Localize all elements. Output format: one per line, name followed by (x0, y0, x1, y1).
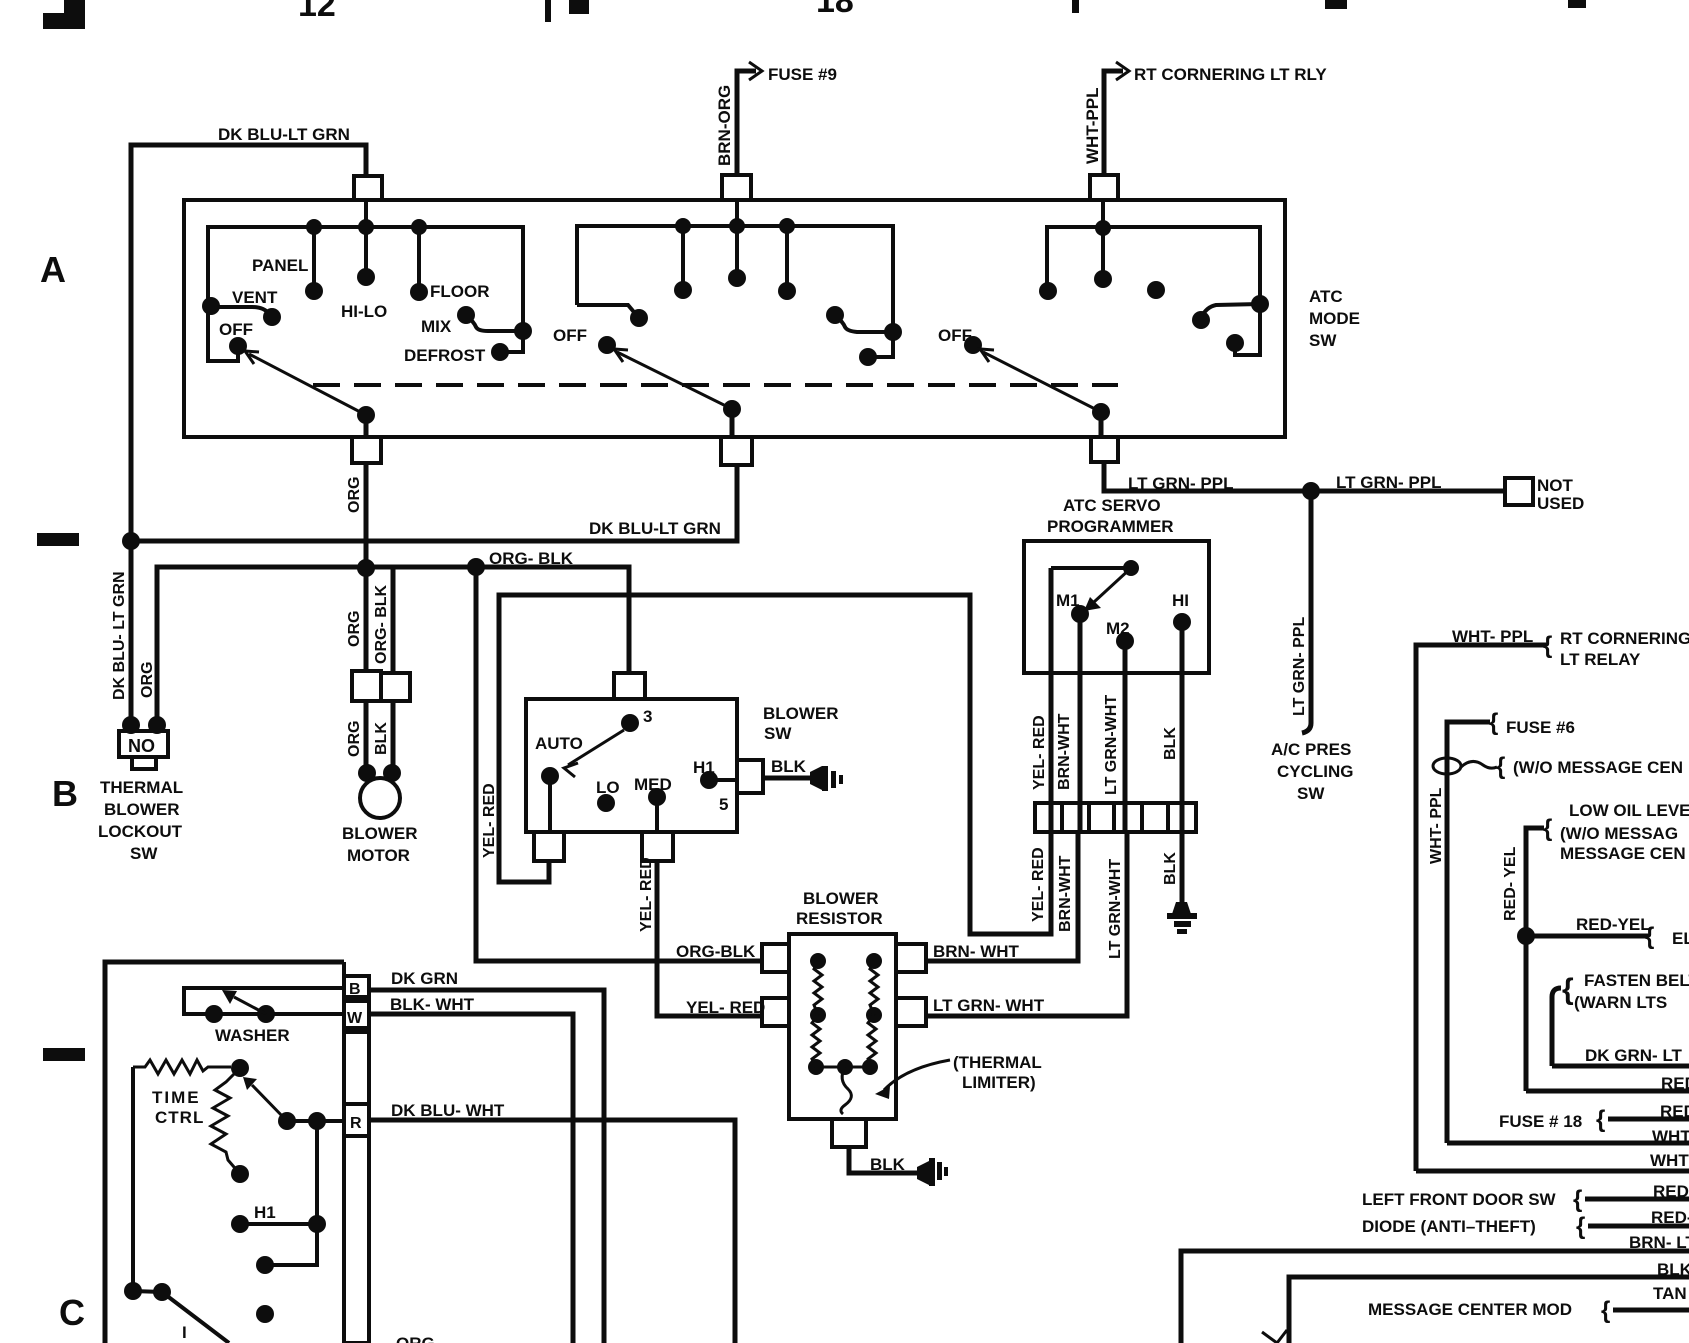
svg-text:DK BLU- LT GRN: DK BLU- LT GRN (111, 571, 128, 700)
svg-text:{: { (1601, 1297, 1610, 1324)
svg-text:ORG- BLK: ORG- BLK (489, 549, 574, 568)
svg-text:BRN-WHT: BRN-WHT (1057, 855, 1074, 932)
svg-text:(W/O MESSAGE CEN: (W/O MESSAGE CEN (1513, 758, 1683, 777)
svg-text:WHT-PPL: WHT-PPL (1083, 88, 1102, 165)
svg-text:H1: H1 (254, 1203, 276, 1222)
svg-text:WHT: WHT (1652, 1127, 1689, 1146)
svg-text:LT GRN-WHT: LT GRN-WHT (1107, 859, 1124, 959)
svg-text:TIME: TIME (152, 1088, 201, 1107)
svg-text:ORG: ORG (139, 662, 156, 698)
svg-text:BLK: BLK (771, 757, 807, 776)
svg-text:LT GRN- PPL: LT GRN- PPL (1336, 473, 1441, 492)
svg-text:THERMAL: THERMAL (100, 778, 183, 797)
svg-text:DK GRN: DK GRN (391, 969, 458, 988)
svg-text:ELE: ELE (1672, 929, 1689, 948)
svg-text:PROGRAMMER: PROGRAMMER (1047, 517, 1174, 536)
svg-text:{: { (1496, 753, 1505, 780)
svg-text:BLOWER: BLOWER (803, 889, 879, 908)
svg-text:ORG: ORG (346, 721, 363, 757)
svg-text:MED: MED (634, 775, 672, 794)
svg-text:ORG: ORG (346, 477, 363, 513)
svg-text:LIMITER): LIMITER) (962, 1073, 1036, 1092)
svg-text:LT GRN- PPL: LT GRN- PPL (1128, 474, 1233, 493)
svg-text:RT CORNERING: RT CORNERING (1560, 629, 1689, 648)
svg-text:MESSAGE CENTER MOD: MESSAGE CENTER MOD (1368, 1300, 1572, 1319)
svg-text:LT GRN- PPL: LT GRN- PPL (1291, 617, 1308, 716)
svg-text:ORG: ORG (346, 611, 363, 647)
svg-text:YEL- RED: YEL- RED (686, 998, 765, 1017)
svg-text:5: 5 (719, 795, 728, 814)
svg-text:A: A (40, 249, 66, 290)
svg-text:NO: NO (128, 736, 155, 756)
svg-text:LOCKOUT: LOCKOUT (98, 822, 183, 841)
svg-text:BLK: BLK (870, 1155, 906, 1174)
svg-text:OFF: OFF (219, 320, 253, 339)
svg-text:ORG-BLK: ORG-BLK (676, 942, 756, 961)
svg-text:{: { (1543, 632, 1552, 659)
svg-text:BRN- WHT: BRN- WHT (933, 942, 1020, 961)
svg-text:MODE: MODE (1309, 309, 1360, 328)
svg-text:ORG: ORG (396, 1334, 435, 1343)
svg-text:FUSE #9: FUSE #9 (768, 65, 837, 84)
svg-text:YEL- RED: YEL- RED (481, 783, 498, 858)
svg-text:RED- YEL: RED- YEL (1502, 846, 1519, 921)
svg-text:LEFT FRONT DOOR SW: LEFT FRONT DOOR SW (1362, 1190, 1557, 1209)
svg-text:FLOOR: FLOOR (430, 282, 490, 301)
svg-text:YEL- RED: YEL- RED (1031, 715, 1048, 790)
svg-text:{: { (1573, 1186, 1582, 1213)
svg-text:B: B (52, 773, 78, 814)
svg-text:{: { (1576, 1213, 1585, 1240)
svg-text:USED: USED (1537, 494, 1584, 513)
svg-text:ATC: ATC (1309, 287, 1343, 306)
svg-text:AUTO: AUTO (535, 734, 583, 753)
svg-text:M2: M2 (1106, 619, 1130, 638)
svg-text:BLOWER: BLOWER (342, 824, 418, 843)
svg-text:YEL- RED: YEL- RED (1030, 847, 1047, 922)
svg-text:H1: H1 (693, 758, 715, 777)
svg-text:BLK: BLK (1162, 852, 1179, 885)
svg-text:HI: HI (1172, 591, 1189, 610)
svg-text:BLOWER: BLOWER (763, 704, 839, 723)
svg-text:PANEL: PANEL (252, 256, 308, 275)
svg-text:SW: SW (130, 844, 158, 863)
svg-text:LT GRN-WHT: LT GRN-WHT (1103, 695, 1120, 795)
svg-text:LO: LO (596, 778, 620, 797)
svg-text:MESSAGE CEN: MESSAGE CEN (1560, 844, 1686, 863)
svg-text:BLK: BLK (373, 722, 390, 755)
svg-text:{: { (1543, 815, 1552, 842)
svg-text:VENT: VENT (232, 288, 278, 307)
svg-text:LT GRN- WHT: LT GRN- WHT (933, 996, 1045, 1015)
svg-text:(WARN LTS: (WARN LTS (1574, 993, 1667, 1012)
svg-text:DEFROST: DEFROST (404, 346, 486, 365)
svg-text:{: { (1562, 973, 1574, 1006)
svg-text:M1: M1 (1056, 591, 1080, 610)
svg-text:3: 3 (643, 707, 652, 726)
svg-text:RED-YEL: RED-YEL (1576, 915, 1651, 934)
svg-text:WHT- PPL: WHT- PPL (1452, 627, 1533, 646)
svg-text:R: R (350, 1115, 362, 1132)
svg-text:HI-LO: HI-LO (341, 302, 387, 321)
svg-text:W: W (347, 1010, 363, 1027)
svg-text:SW: SW (1297, 784, 1325, 803)
svg-text:{: { (1596, 1106, 1605, 1133)
svg-text:RED: RED (1661, 1074, 1689, 1093)
svg-text:NOT: NOT (1537, 476, 1574, 495)
svg-text:SW: SW (764, 724, 792, 743)
svg-text:WASHER: WASHER (215, 1026, 290, 1045)
svg-text:{: { (1489, 709, 1498, 736)
svg-text:DK GRN- LT: DK GRN- LT (1585, 1046, 1683, 1065)
svg-text:YEL- RED: YEL- RED (638, 857, 655, 932)
svg-text:BRN-WHT: BRN-WHT (1056, 713, 1073, 790)
svg-text:B: B (349, 981, 361, 998)
svg-text:(W/O MESSAG: (W/O MESSAG (1560, 824, 1678, 843)
svg-text:ORG- BLK: ORG- BLK (373, 584, 390, 664)
svg-text:18: 18 (816, 0, 854, 20)
svg-text:BLK- WHT: BLK- WHT (390, 995, 475, 1014)
svg-text:DIODE (ANTI–THEFT): DIODE (ANTI–THEFT) (1362, 1217, 1536, 1236)
svg-text:ATC SERVO: ATC SERVO (1063, 496, 1161, 515)
svg-text:BRN-ORG: BRN-ORG (715, 85, 734, 166)
svg-text:(THERMAL: (THERMAL (953, 1053, 1042, 1072)
svg-text:DK BLU- WHT: DK BLU- WHT (391, 1101, 505, 1120)
svg-text:CYCLING: CYCLING (1277, 762, 1354, 781)
svg-text:12: 12 (298, 0, 336, 24)
svg-text:RT CORNERING LT RLY: RT CORNERING LT RLY (1134, 65, 1327, 84)
svg-text:LOW OIL LEVE: LOW OIL LEVE (1569, 801, 1689, 820)
svg-text:WHT: WHT (1650, 1151, 1689, 1170)
svg-text:SW: SW (1309, 331, 1337, 350)
svg-text:FASTEN BELT: FASTEN BELT (1584, 971, 1689, 990)
svg-text:I: I (182, 1323, 187, 1342)
svg-text:OFF: OFF (553, 326, 587, 345)
svg-text:LT RELAY: LT RELAY (1560, 650, 1641, 669)
svg-text:MOTOR: MOTOR (347, 846, 410, 865)
svg-text:C: C (59, 1292, 85, 1333)
svg-text:CTRL: CTRL (155, 1108, 204, 1127)
svg-text:BLK: BLK (1162, 727, 1179, 760)
svg-text:DK BLU-LT GRN: DK BLU-LT GRN (218, 125, 350, 144)
svg-text:WHT- PPL: WHT- PPL (1428, 787, 1445, 864)
svg-text:A/C PRES: A/C PRES (1271, 740, 1351, 759)
svg-text:MIX: MIX (421, 317, 452, 336)
svg-text:FUSE #6: FUSE #6 (1506, 718, 1575, 737)
svg-text:BLOWER: BLOWER (104, 800, 180, 819)
svg-text:TAN: TAN (1653, 1284, 1687, 1303)
svg-text:OFF: OFF (938, 326, 972, 345)
svg-text:RESISTOR: RESISTOR (796, 909, 883, 928)
svg-text:FUSE # 18: FUSE # 18 (1499, 1112, 1582, 1131)
svg-text:DK BLU-LT GRN: DK BLU-LT GRN (589, 519, 721, 538)
